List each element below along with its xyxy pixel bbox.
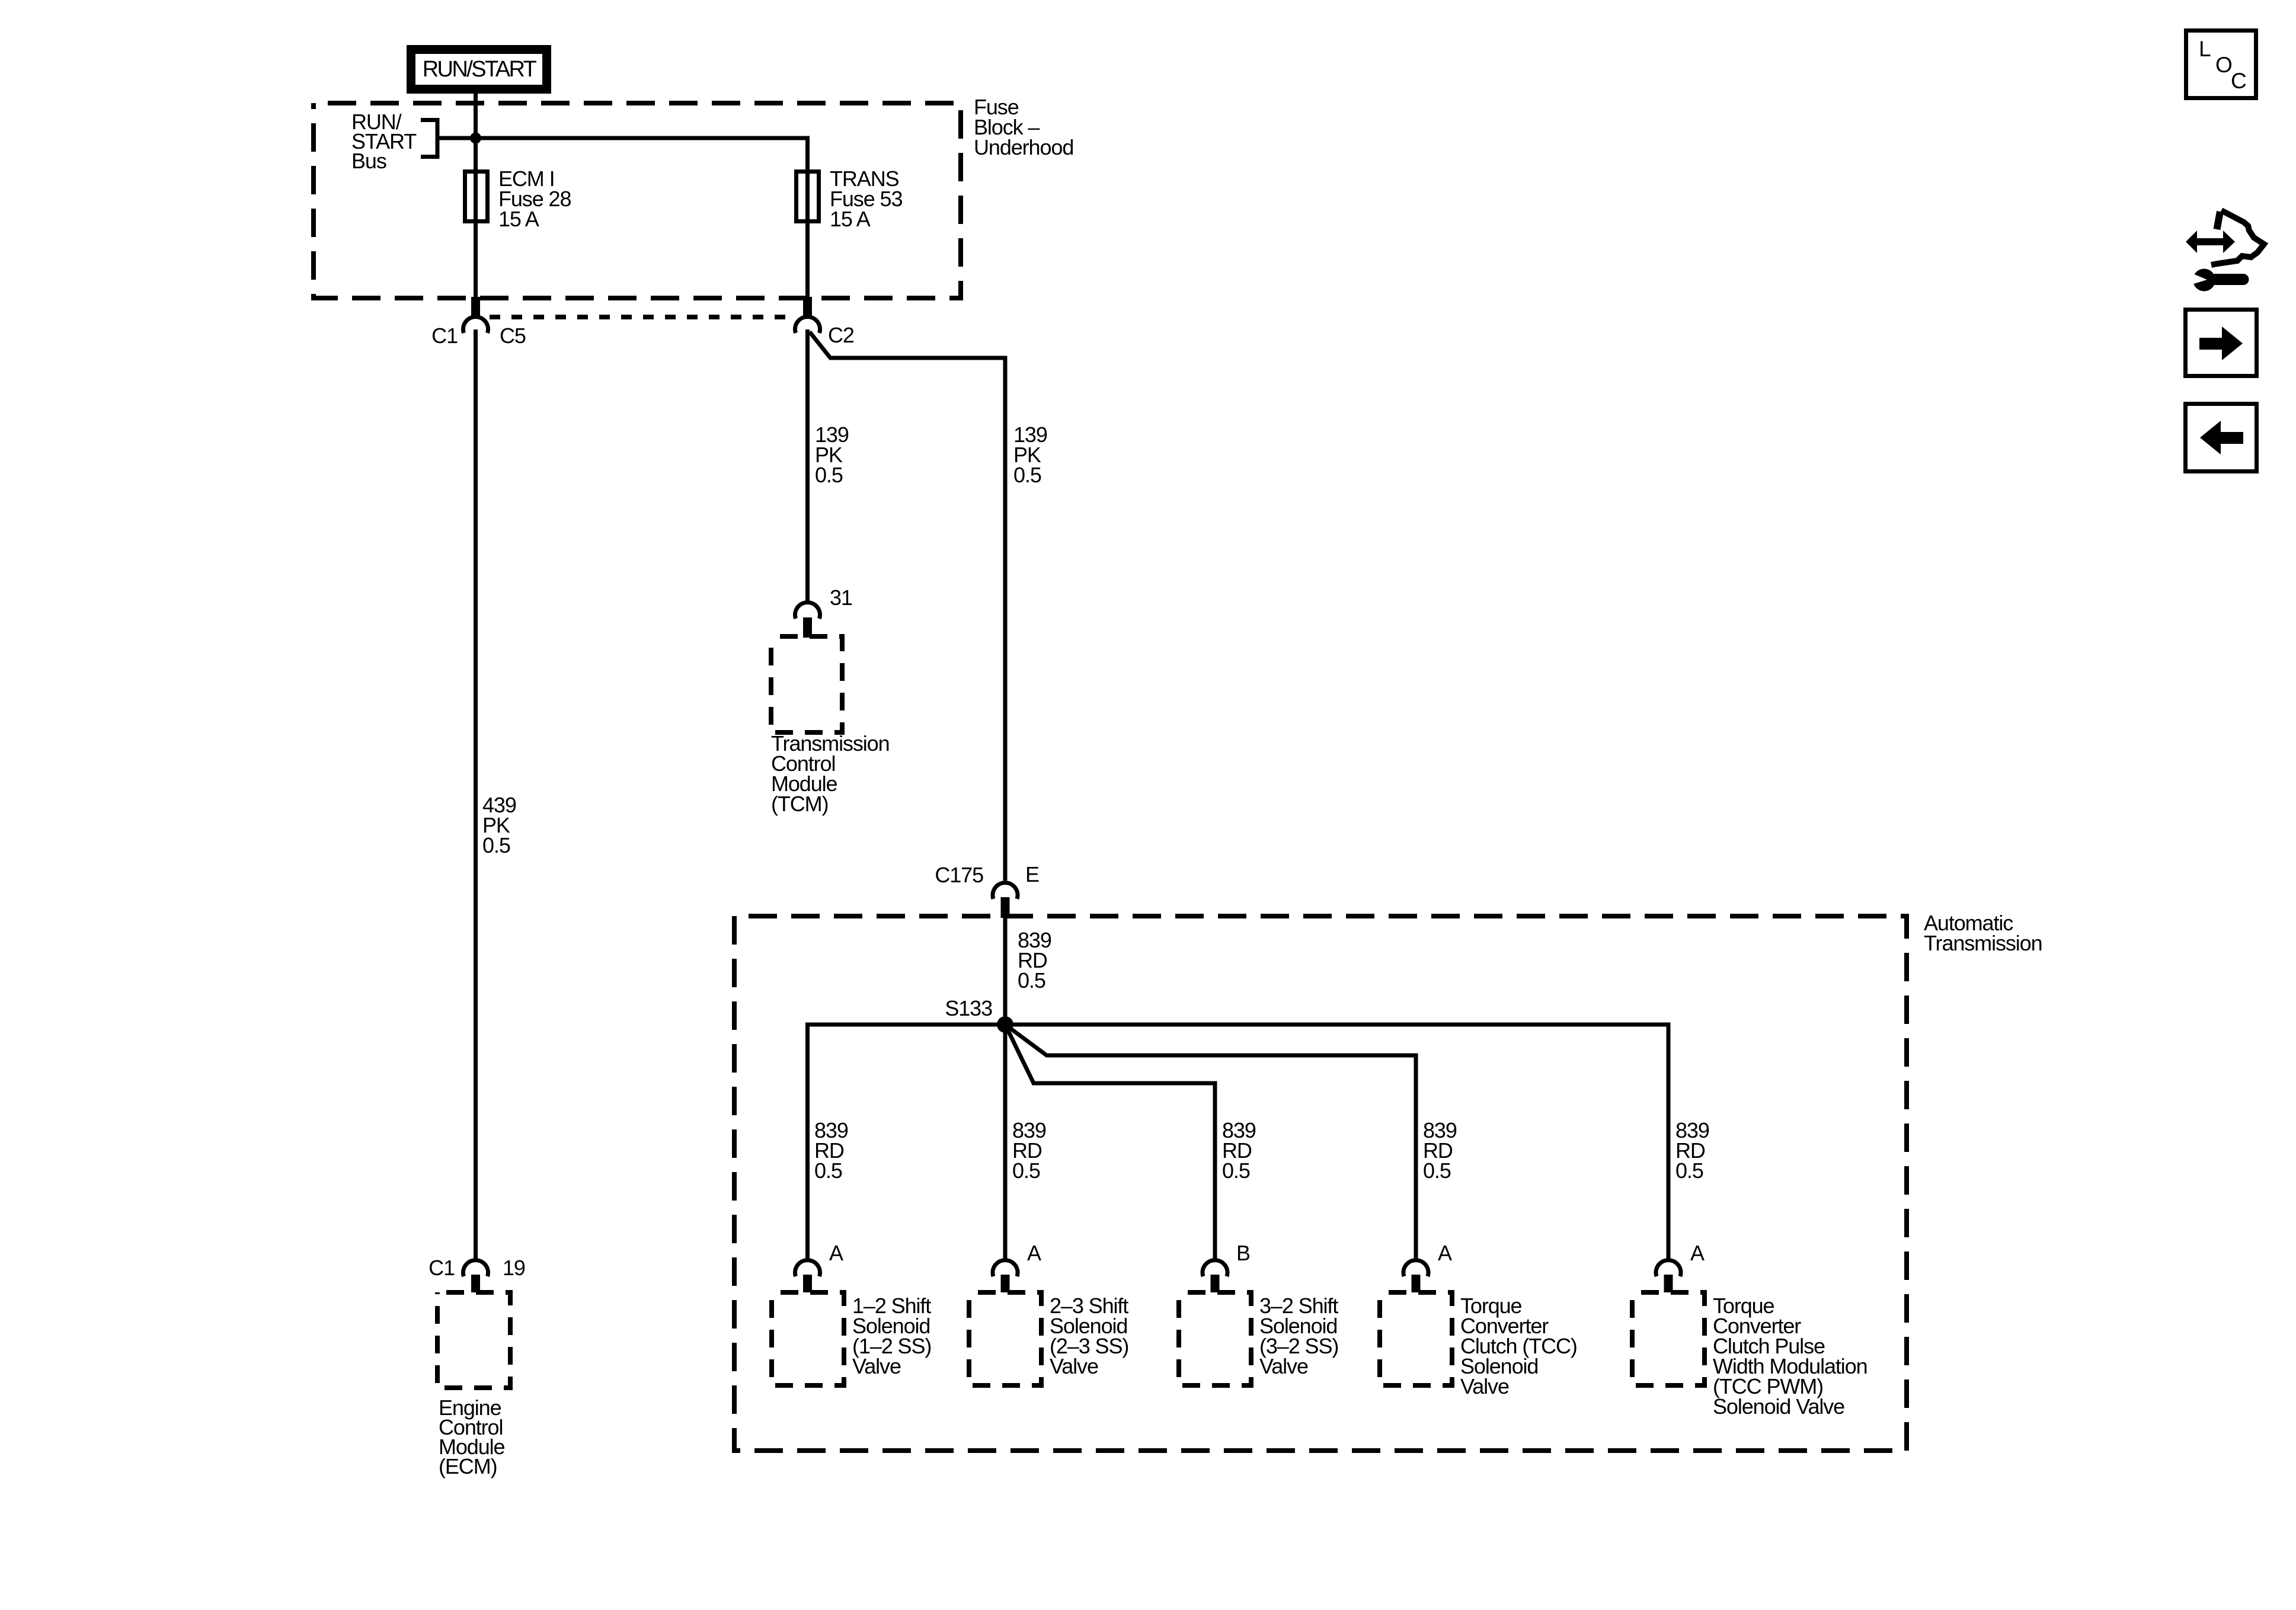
svg-text:C5: C5 (500, 324, 526, 348)
connector C175 pin E (993, 883, 1018, 899)
dotted connector line between C1 and C2 (490, 315, 794, 319)
svg-text:19: 19 (503, 1256, 525, 1280)
svg-text:EngineControlModule(ECM): EngineControlModule(ECM) (439, 1395, 505, 1478)
svg-text:139PK0.5: 139PK0.5 (1013, 422, 1047, 487)
connector C1 pin 19 at ECM (463, 1260, 488, 1276)
wire: C175 down to splice S133 and on to 2-3 shift solenoid (1003, 918, 1008, 1259)
svg-text:B: B (1236, 1241, 1250, 1265)
wire: C2 diagonal to TCM/C175 branch (810, 332, 830, 358)
connector C2 at fuse block (803, 297, 812, 316)
svg-text:FuseBlock –Underhood: FuseBlock –Underhood (974, 95, 1073, 159)
wire: horizontal to C175 drop (829, 356, 1005, 360)
svg-text:439PK0.5: 439PK0.5 (482, 793, 516, 857)
svg-text:A: A (1690, 1241, 1705, 1265)
next-page arrow box (2186, 310, 2257, 376)
wire: S133 left to 1-2 shift solenoid (808, 1025, 1006, 1259)
svg-text:L: L (2199, 37, 2211, 61)
svg-text:139PK0.5: 139PK0.5 (815, 422, 849, 487)
svg-text:839RD0.5: 839RD0.5 (814, 1118, 848, 1183)
svg-text:839RD0.5: 839RD0.5 (1018, 928, 1051, 993)
svg-text:2–3 ShiftSolenoid(2–3 SS)Valve: 2–3 ShiftSolenoid(2–3 SS)Valve (1050, 1294, 1128, 1378)
svg-text:839RD0.5: 839RD0.5 (1012, 1118, 1046, 1183)
Engine Control Module (ECM) dashed box (437, 1292, 510, 1388)
svg-text:TRANSFuse 5315 A: TRANSFuse 5315 A (830, 167, 902, 231)
svg-text:3–2 ShiftSolenoid(3–2 SS)Valve: 3–2 ShiftSolenoid(3–2 SS)Valve (1259, 1294, 1338, 1378)
wire: RUN/START bus horizontal (437, 136, 808, 140)
wire: S133 right to TCC PWM solenoid (1005, 1025, 1668, 1259)
wire: RUN/START box down to C1 (474, 94, 478, 316)
svg-text:O: O (2215, 53, 2233, 77)
wire: C2 down to TCM pin 31 (805, 329, 810, 601)
previous-page arrow box (2186, 404, 2257, 472)
svg-text:RUN/START: RUN/START (423, 57, 537, 82)
RUN/START Bus bracket (421, 120, 437, 157)
1-2 Shift Solenoid (1-2 SS) Valve dashed box (772, 1292, 844, 1385)
connector pin A of 2-3 Shift Solenoid (2-3 SS) Valve (993, 1260, 1018, 1276)
connector pin B of 3-2 Shift Solenoid (3-2 SS) Valve (1203, 1260, 1227, 1276)
Automatic Transmission dashed box (734, 916, 1907, 1451)
connector pin A of Torque Converter Clutch (TCC) Solenoid Valve (1403, 1260, 1428, 1276)
fuse ECM I Fuse 28 15 A (465, 172, 488, 222)
svg-text:RUN/STARTBus: RUN/STARTBus (351, 110, 417, 173)
connector 31 at TCM (795, 603, 820, 619)
svg-text:C: C (2231, 69, 2247, 93)
svg-text:TorqueConverterClutch (TCC)Sol: TorqueConverterClutch (TCC)SolenoidValve (1460, 1294, 1577, 1398)
2-3 Shift Solenoid (2-3 SS) Valve dashed box (969, 1292, 1041, 1385)
svg-text:839RD0.5: 839RD0.5 (1423, 1118, 1457, 1183)
svg-text:C2: C2 (828, 323, 854, 347)
vehicle/wrench service icon (2186, 210, 2264, 292)
LOC reference box (2186, 31, 2256, 98)
svg-text:TorqueConverterClutch PulseWid: TorqueConverterClutch PulseWidth Modulat… (1713, 1294, 1868, 1419)
Torque Converter Clutch (TCC) Solenoid Valve dashed box (1380, 1292, 1452, 1385)
connector pin A of Torque Converter Clutch PWM (TCC PWM) Solenoid Valve (1656, 1260, 1681, 1276)
Torque Converter Clutch PWM (TCC PWM) Solenoid Valve dashed box (1632, 1292, 1705, 1385)
fuse TRANS Fuse 53 15 A (797, 172, 819, 222)
svg-text:839RD0.5: 839RD0.5 (1675, 1118, 1709, 1183)
svg-text:C1: C1 (428, 1256, 455, 1280)
connector pin A of 1-2 Shift Solenoid (1-2 SS) Valve (795, 1260, 820, 1276)
svg-text:S133: S133 (945, 996, 992, 1020)
junction on bus at ECM I fuse wire (470, 133, 481, 144)
wire: below C1 connector down to ECM (474, 329, 478, 1259)
svg-text:E: E (1025, 862, 1039, 886)
splice S133 (997, 1016, 1013, 1033)
RUN/START power feed title box (411, 50, 547, 89)
wire: S133 to TCC solenoid (1005, 1025, 1416, 1259)
svg-text:A: A (1027, 1241, 1041, 1265)
Fuse Block - Underhood dashed box (314, 103, 961, 298)
svg-text:C1: C1 (431, 324, 458, 348)
wire: bus corner down to TRANS fuse (805, 136, 810, 316)
svg-text:C175: C175 (935, 863, 983, 887)
svg-text:A: A (829, 1241, 843, 1265)
svg-text:TransmissionControlModule(TCM): TransmissionControlModule(TCM) (771, 731, 890, 816)
svg-text:ECM IFuse 2815 A: ECM IFuse 2815 A (498, 167, 571, 231)
svg-text:AutomaticTransmission: AutomaticTransmission (1924, 911, 2042, 955)
wire: S133 to 3-2 shift solenoid (1005, 1025, 1215, 1259)
svg-text:1–2 ShiftSolenoid(1–2 SS)Valve: 1–2 ShiftSolenoid(1–2 SS)Valve (852, 1294, 931, 1378)
svg-text:839RD0.5: 839RD0.5 (1222, 1118, 1256, 1183)
svg-text:31: 31 (830, 585, 852, 610)
TCM dashed box (771, 636, 842, 732)
3-2 Shift Solenoid (3-2 SS) Valve dashed box (1179, 1292, 1251, 1385)
svg-text:A: A (1438, 1241, 1452, 1265)
connector C1/C5 at fuse block (471, 297, 480, 316)
wire: down to C175 (1003, 356, 1008, 881)
